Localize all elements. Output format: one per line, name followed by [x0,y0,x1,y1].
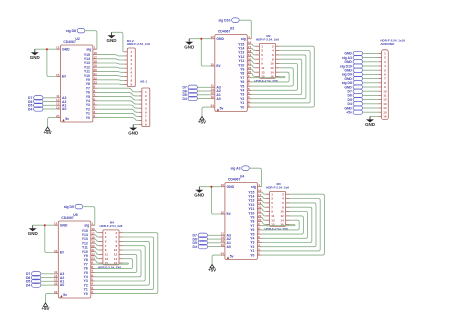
U3 pin 12 (GND) [210,35,224,41]
U2 pin 14 (A2) [56,98,66,104]
M1-2 pin 2 [124,54,132,58]
wire U5.Y8 to M4.15 [95,260,99,263]
U4 pin 21 (Y10) [248,210,261,216]
+5V power flag near U5 [41,303,49,311]
svg-text:HDR-F-2.54_2x8: HDR-F-2.54_2x8 [266,185,289,189]
U3 pin 11 (A3) [211,84,221,90]
wire junction to U3.E# [201,39,210,66]
wire M2.6 to U3.Y2 [251,55,306,99]
U4 designator label [240,174,244,178]
header M3 [270,191,286,226]
U3 pin 24 (+5v) [210,104,223,111]
svg-text:GND: GND [28,231,39,236]
M3 pin 13 [266,218,275,222]
net label D5 (U5.A1) [26,279,41,284]
M4 pin 13 [99,257,108,261]
U4 pin 7 (Y5) [250,231,261,237]
svg-text:D4: D4 [26,283,30,287]
M2 pin 13 [256,70,265,74]
svg-text:D4: D4 [182,97,186,101]
wire U2.Y14 to M1-2.3 [97,59,124,60]
M2 pin 15 [256,75,265,79]
svg-text:GND: GND [128,130,139,135]
svg-text:10: 10 [210,95,214,99]
wire U4.Y15 to M3.1 [262,192,266,194]
U2 pin 5 (Y3) [86,102,97,108]
wire GND to U2.GND [35,48,57,50]
wire M3.2 to U4.Y0 [262,194,325,255]
wire U3.Y8 to M2.15 [251,74,255,77]
wire D4 to M5.13 [363,103,379,105]
U4 pin 4 (Y2) [250,243,261,249]
U2 pin 8 (Y6) [86,89,97,95]
wire U3.Y14 to M2.3 [251,48,255,50]
wire GND to M5.14 [363,107,379,109]
svg-text:HDR-F-2.54_1x8: HDR-F-2.54_1x8 [127,42,150,46]
svg-text:10: 10 [280,210,284,214]
net label D7 (U4.A3) [193,233,208,238]
U5 pin 16 (Y15) [82,227,95,233]
wire U3.Y12 to M2.7 [251,57,255,60]
U5 pin 1 (sig) [84,222,95,228]
M4 pin 7 [99,244,107,248]
U2 value label CD4067 [63,40,76,44]
wire U5.Y11 to M4.9 [95,247,99,250]
wire U2.+5v to +5V [48,118,57,127]
junction [210,186,212,188]
svg-text:12: 12 [221,183,225,187]
U5 designator label [73,213,77,217]
wire GND to M5.7 [363,78,379,80]
wire U2.Y11 to M1-2.6 [97,70,124,73]
svg-text:CD4067: CD4067 [218,30,231,34]
wire M1-1.9 to GND [133,124,139,126]
M4 pin 16 [114,261,123,265]
svg-text:15: 15 [221,210,225,214]
svg-text:CD4067: CD4067 [61,216,74,220]
U3 designator label [230,26,234,30]
M2 pin 8 [272,57,279,61]
U3 pin 18 (Y13) [238,49,251,55]
M4 pin 12 [114,253,123,257]
net label GND (M5.14) [344,106,362,110]
M1-2 pin 1 [124,50,132,54]
svg-text:12: 12 [210,35,214,39]
M3 pin 3 [266,197,274,201]
U2 pin 22 (Y9) [86,76,97,82]
M3 pin 2 [282,192,289,196]
M4 pin 4 [116,235,123,239]
M5 pin 4 [378,64,386,68]
svg-text:GND: GND [194,193,205,198]
U2 pin 4 (Y2) [86,106,97,112]
wire U4.Y9 to M3.13 [262,217,266,220]
wire U2.Y7 to M1-1.1 [97,88,139,92]
U4 pin 16 (Y15) [248,189,261,195]
svg-text:U4: U4 [240,174,244,178]
wire U2.Y15 to M1-2.2 [97,55,124,56]
U3 pin 1 (sig) [241,35,252,41]
wire D7 to U4.A3 [208,234,221,236]
wire M4.12 to U5.Y5 [95,254,137,272]
M4 value label [100,224,123,228]
wire D5 to U3.A1 [197,94,210,96]
wire U4.Y8 to M3.15 [262,222,266,225]
wire D5 to U4.A1 [208,242,221,244]
wire junction to U2.E# [47,49,56,76]
U4 pin 20 (Y11) [249,205,262,211]
M4 pin 8 [116,244,123,248]
U3 pin 8 (Y6) [240,78,251,84]
M1-1 pin 1 [139,90,147,94]
U5 pin 2 (Y0) [84,290,95,296]
wire U4.Y12 to M3.7 [262,205,266,208]
svg-text:sig: sig [84,223,89,227]
net label D4 (U4.A0) [193,244,208,249]
wire M2.4 to U3.Y1 [251,51,310,103]
U3 pin 5 (Y3) [240,91,251,97]
U3 pin 14 (A2) [210,88,220,94]
wire junction to U5.E# [45,225,54,252]
U5 pin 4 (Y2) [84,282,95,288]
U4 pin 19 (Y12) [248,201,261,207]
svg-text:ARDUINO: ARDUINO [380,42,395,46]
wire M2.16 to U3.Y7 [251,77,285,78]
M1-2 pin 5 [124,66,132,70]
M2 pin 12 [270,66,279,70]
svg-text:10: 10 [114,248,118,252]
net label D7 (U2.A3) [28,96,43,101]
wire M4.10 to U5.Y4 [95,250,141,277]
svg-text:15: 15 [210,62,214,66]
M1-2 pin 9 [124,83,132,87]
wire M3.6 to U4.Y2 [262,203,317,247]
U4 pin 10 (A0) [221,243,231,249]
U5 value label CD4067 [61,216,74,220]
U3 pin 9 (Y7) [240,74,251,80]
wire D6 to U3.A2 [197,90,210,92]
U4 pin 3 (Y1) [250,247,261,253]
wire D6 to U2.A2 [43,101,56,103]
U5 pin 22 (Y9) [84,252,95,258]
wire U5.Y14 to M4.3 [95,235,99,237]
svg-text:A0: A0 [60,283,64,287]
U4 pin 11 (A3) [221,232,231,238]
U5 pin 15 (E#) [54,249,64,255]
wire sig D8 to U2.sig [85,31,97,50]
wire D4 to U3.A0 [197,98,210,100]
net label D4 (U3.A0) [182,96,197,101]
+5V power flag near U4 [208,265,216,273]
M1-2 designator label [127,39,134,43]
U4 pin 17 (Y14) [248,193,261,199]
wire M3.14 to U4.Y6 [262,220,300,230]
M5 pin 15 [378,110,386,114]
U4 pin 15 (E#) [221,210,231,216]
header M5 (ARDUINO) labels [380,39,405,46]
M5 pin 11 [378,94,386,98]
M5 pin 16 [378,115,386,119]
wire sig A3 to U4.sig [249,168,261,187]
wire U4.Y11 to M3.9 [262,209,266,212]
svg-text:16: 16 [383,115,387,119]
net label sig A3 (M5.2) [342,56,363,60]
wire sig D9 to U5.sig [83,207,95,226]
wire sig D8 to M5.8 [363,82,379,84]
junction [46,48,48,50]
wire sig D10 to M5.4 [363,65,379,67]
U5 pin 8 (Y6) [84,265,95,271]
M4 pin 2 [116,231,123,235]
U5 pin 9 (Y7) [84,261,95,267]
header M4 [103,230,119,265]
net label D5 (U2.A1) [28,103,43,108]
U2 pin 16 (Y15) [84,51,97,57]
M1-1 pin 7 [139,115,147,119]
wire GND to M5.1 [363,52,379,54]
svg-text:GND: GND [60,223,68,227]
net label D4 (U5.A0) [26,283,41,288]
net label sig D8 (M5.8) [342,81,363,85]
M2 pin 3 [256,49,264,53]
header M5 (ARDUINO) [382,50,389,120]
M3 pin 5 [266,201,274,205]
wire GND to M5.9 [363,86,379,88]
M2 name label [254,79,278,83]
svg-text:sig D8: sig D8 [66,29,76,33]
M3 pin 12 [280,214,289,218]
M1-2 pin 8 [124,79,132,83]
M3 pin 4 [282,197,289,201]
wire M2.10 to U3.Y4 [251,64,297,91]
+5V power flag near U3 [198,117,206,125]
U2 pin 18 (Y13) [84,60,97,66]
net label GND (M5.9) [344,85,362,89]
M1-1 pin 5 [139,106,147,110]
M4 name label [98,265,122,269]
U2 pin 6 (Y4) [86,97,97,103]
M1-1 pin 4 [139,102,147,106]
M2 value label [256,37,279,41]
wire M3.12 to U4.Y5 [262,216,304,234]
U3 pin 7 (Y5) [240,83,251,89]
U3 pin 2 (Y0) [240,104,251,110]
U5 pin 19 (Y12) [82,240,95,246]
svg-text:GND: GND [30,55,41,60]
wire M4.2 to U5.Y0 [95,233,158,294]
wire M3.10 to U4.Y4 [262,212,308,239]
U4 pin 6 (Y4) [250,235,261,241]
svg-text:E#: E# [227,212,231,216]
net label GND (M5.5) [344,68,362,72]
svg-text:GND: GND [107,38,118,43]
ground near U5 [28,225,39,236]
junction [44,224,46,226]
U5 pin 17 (Y14) [82,231,95,237]
IC U2 [60,45,93,122]
M5 pin 8 [378,81,386,85]
net label sig D9 [64,204,83,209]
U5 pin 11 (A3) [54,270,64,276]
ground near M5 [365,116,376,127]
M4 pin 9 [99,248,107,252]
svg-text:10: 10 [54,281,58,285]
svg-text:E#: E# [60,251,64,255]
M4 pin 11 [99,253,108,257]
U4 pin 23 (Y8) [250,218,261,224]
M2 pin 6 [272,53,279,57]
svg-text:E#: E# [216,64,220,68]
svg-text:Y0: Y0 [86,116,90,120]
M2 designator label [266,34,270,38]
M3 pin 7 [266,205,274,209]
M1-1 pin 3 [139,98,147,102]
M4 designator label [110,221,114,225]
net label D6 (U3.A2) [182,89,197,94]
M5 pin 7 [378,77,386,81]
wire M3.16 to U4.Y7 [262,225,296,226]
wire junction to U4.E# [211,187,220,214]
svg-text:12: 12 [56,46,60,50]
net label D7 (U3.A3) [182,85,197,90]
wire M2.2 to U3.Y0 [251,46,314,107]
ground near U3 [184,39,195,50]
svg-text:15: 15 [56,73,60,77]
U2 pin 2 (Y0) [86,114,97,120]
M3 name label [265,227,289,231]
U5 pin 13 (A1) [54,278,64,284]
U5 pin 23 (Y8) [84,257,95,263]
M4 pin 1 [99,231,107,235]
U4 pin 18 (Y13) [248,197,261,203]
ground near U4 [194,187,205,198]
U5 pin 24 (+5v) [54,290,67,297]
wire D7 to U5.A3 [41,273,54,275]
wire U5.+5v to +5V [46,294,55,303]
net label D4 (M5.13) [348,102,363,106]
wire M4.8 to U5.Y3 [95,246,145,281]
svg-text:5v: 5v [220,106,224,110]
svg-text:GND: GND [216,37,224,41]
wire D6 to M5.11 [363,94,379,96]
M3 designator label [277,182,281,186]
wire D6 to U4.A2 [208,238,221,240]
U2 pin 10 (A0) [56,106,66,112]
U3 pin 4 (Y2) [240,95,251,101]
svg-text:HDR-F-2.54_2x8: HDR-F-2.54_2x8 [256,37,279,41]
IC U4 [225,183,258,260]
wire M2.12 to U3.Y5 [251,68,293,86]
U3 pin 23 (Y8) [240,70,251,76]
net label D6 (M5.11) [348,93,363,97]
wire M3.8 to U4.Y3 [262,207,312,242]
U2 pin 13 (A1) [56,102,66,108]
wire U5.Y15 to M4.1 [95,231,99,233]
U3 pin 15 (E#) [210,62,220,68]
svg-text:U3: U3 [230,26,234,30]
M1-2 pin 7 [124,75,132,79]
U5 pin 6 (Y4) [84,273,95,279]
U3 pin 21 (Y10) [238,62,251,68]
wire D5 to M5.12 [363,99,379,101]
U5 pin 18 (Y13) [82,236,95,242]
wire M4.14 to U5.Y6 [95,259,133,269]
svg-text:GND: GND [227,185,235,189]
svg-text:A0: A0 [216,97,220,101]
wire D7 to U3.A3 [197,86,210,88]
M4 pin 14 [114,257,123,261]
svg-text:24: 24 [210,104,214,108]
U5 pin 20 (Y11) [82,244,95,250]
ground near M1-1 [128,125,139,136]
M1-2 value label [127,42,150,46]
U3 pin 17 (Y14) [238,45,251,51]
wire U2.Y9 to M1-2.8 [97,79,124,82]
M3 pin 14 [280,218,289,222]
wire M4.16 to U5.Y7 [95,263,128,264]
M3 value label [266,185,289,189]
U4 pin 5 (Y3) [250,239,261,245]
M5 pin 14 [378,106,386,110]
net label D4 (U2.A0) [28,107,43,112]
svg-text:U2: U2 [75,37,79,41]
wire D7 to M5.10 [363,90,379,92]
svg-text:sig D9: sig D9 [64,205,74,209]
M1-1 pin 8 [139,119,147,123]
M3 pin 15 [266,223,275,227]
wire U4.+5v to +5V [212,255,221,264]
wire U4.Y10 to M3.11 [262,213,266,216]
svg-text:GND: GND [365,122,376,127]
wire U3.+5v to +5V [202,107,211,116]
svg-text:+5V: +5V [44,130,52,135]
svg-text:+5v: +5v [346,111,352,115]
svg-text:sig D10: sig D10 [218,19,230,23]
U4 pin 12 (GND) [221,183,235,189]
M2 pin 5 [256,53,264,57]
U4 pin 9 (Y7) [250,222,261,228]
U2 pin 9 (Y7) [86,85,97,91]
M5 pin 1 [378,52,386,56]
M4 pin 6 [116,240,123,244]
U4 pin 24 (+5v) [221,252,234,259]
M1-1 designator label [140,79,147,83]
U5 pin 14 (A2) [54,274,64,280]
M3 pin 16 [280,223,289,227]
U5 pin 5 (Y3) [84,278,95,284]
svg-text:5v: 5v [230,254,234,258]
wire M3.4 to U4.Y1 [262,199,321,251]
svg-text:+5V: +5V [198,119,206,124]
net label D6 (U2.A2) [28,99,43,104]
U3 pin 16 (Y15) [238,41,251,47]
M2 pin 1 [256,44,264,48]
wire U3.Y10 to M2.11 [251,65,255,68]
svg-text:24: 24 [221,252,225,256]
svg-text:GND: GND [62,47,70,51]
wire M2.8 to U3.Y3 [251,59,301,94]
M1-2 pin 3 [124,58,132,62]
M4 pin 10 [114,248,123,252]
wire U3.Y15 to M2.1 [251,44,255,46]
U3 pin 6 (Y4) [240,87,251,93]
wire GND to U3.GND [189,38,211,40]
M2 pin 7 [256,57,264,61]
U4 value label CD4067 [228,178,241,182]
net label GND (M5.3) [344,60,362,64]
header M2 [259,43,275,78]
wire M4.6 to U5.Y2 [95,241,149,285]
